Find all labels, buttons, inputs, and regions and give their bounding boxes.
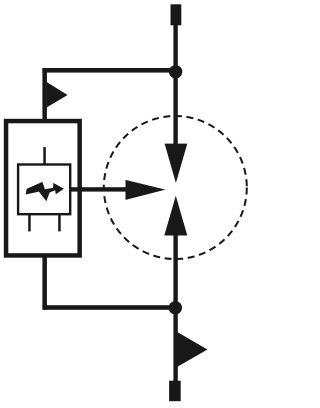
wire: top horizontal <box>42 68 176 73</box>
node: bottom junction dot <box>169 301 182 314</box>
wire: left vertical upper <box>42 68 47 121</box>
outer box (SPD enclosure) <box>6 121 80 255</box>
terminal bottom <box>169 381 181 402</box>
wire: left vertical lower <box>42 255 47 310</box>
arrow flag on lower main line <box>178 332 208 367</box>
inner box top pin <box>43 147 46 165</box>
spark gap: top electrode arrow (down) <box>165 144 188 183</box>
node: top junction dot <box>169 65 182 78</box>
wire: main vertical bottom segment <box>173 235 177 381</box>
terminal top <box>171 4 182 25</box>
wire: main vertical top segment <box>173 24 177 146</box>
lightning flash arrow inside inner box <box>26 182 64 201</box>
arrow flag on upper left wire <box>47 82 68 107</box>
inner box bottom pin left <box>28 214 31 231</box>
dashed circle (spark gap enclosure) <box>104 116 247 259</box>
arrowhead pointing right (actuator) <box>126 180 166 200</box>
wire: bottom horizontal <box>42 305 176 310</box>
wire: horizontal actuator line to spark gap <box>69 187 127 191</box>
inner box bottom pin right <box>58 214 61 231</box>
spark gap: bottom electrode arrow (up) <box>164 196 187 236</box>
inner box (surge arrester element) <box>18 165 70 215</box>
